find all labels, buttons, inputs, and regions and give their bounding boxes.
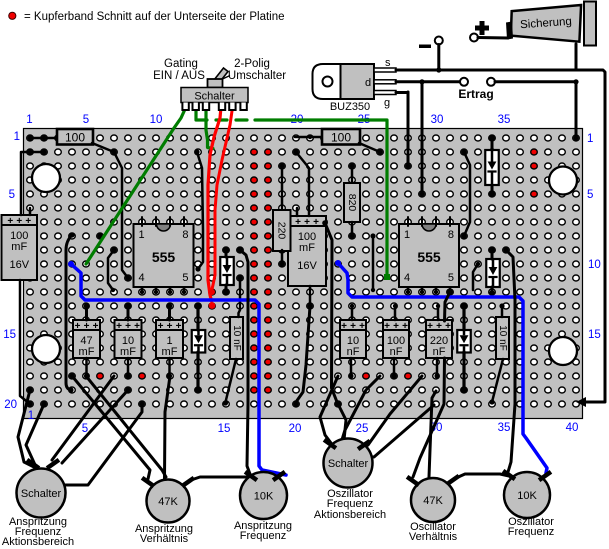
wire g-net col28 [407,92,410,166]
svg-text:16V: 16V [9,259,29,271]
capacitor C1 100mF 16V [2,215,38,280]
capacitor C10 10nF [496,317,509,359]
wire R3 bottom lead [281,250,284,264]
svg-text:16V: 16V [297,260,317,272]
svg-text:+: + [93,321,99,332]
wire blue2 to pot6 [338,263,547,473]
svg-text:100: 100 [331,131,351,145]
svg-text:nF: nF [433,346,446,358]
wire pot3 left feed [240,250,250,474]
wire s-net [396,70,605,402]
svg-text:15: 15 [588,329,601,341]
capacitor C8 220nF [426,320,452,358]
wire C2 bottom lead [309,286,312,306]
wire C9 top lead [239,278,241,317]
svg-text:40: 40 [566,422,579,434]
op-amp U1 555 timer [134,224,194,287]
potentiometer P4 Schalter [324,439,373,488]
wire Ertrag col40 [575,82,578,138]
svg-text:2-Polig: 2-Polig [234,58,270,70]
svg-text:Aktionsbereich: Aktionsbereich [2,536,74,548]
svg-text:15: 15 [218,423,231,435]
top column labels [26,114,510,126]
wire d-net to Ertrag [396,80,460,83]
wire pot1 left feed A [18,390,34,467]
switch body Schalter [181,88,248,103]
svg-text:+: + [402,321,408,332]
wire pot2 top feed B [86,376,166,477]
potentiometer P5 47K [411,478,455,522]
svg-text:10 nF: 10 nF [497,325,508,351]
svg-text:100: 100 [65,131,85,145]
svg-text:+: + [313,217,319,228]
resistor R4 820 [344,183,360,222]
mounting hole top-left [32,164,60,192]
wire C10 top lead [501,306,504,317]
wire d-net col29 [421,82,424,194]
capacitor C9 10nF [230,317,243,359]
svg-text:820: 820 [346,194,358,212]
wire pot2 left feed [72,376,150,479]
svg-text:10: 10 [150,114,163,126]
wire C7 100nF bottom lead [393,358,396,376]
resistor R3 220 [273,210,291,251]
svg-text:mF: mF [11,241,27,253]
svg-text:+: + [16,216,22,227]
wire col4 row8 to col4 row19 [66,235,72,390]
mounting hole top-right [549,167,577,195]
right row labels [587,133,601,341]
svg-text:Verhältnis: Verhältnis [409,531,458,543]
svg-text:+: + [116,321,122,332]
svg-text:+: + [7,216,13,227]
wire C5 1mF top lead [168,306,171,320]
capacitor C5 1mF [156,320,183,358]
wire col13 row2 to row10 [197,152,203,269]
svg-text:Schalter: Schalter [194,91,235,103]
wire red switch pin5 [212,111,232,289]
wire C4 10mF bottom lead [127,358,130,376]
hole grid with red cut marks [27,135,580,407]
svg-text:EIN / AUS: EIN / AUS [153,70,205,82]
svg-text:555: 555 [152,249,176,265]
capacitor C3 47mF [73,320,100,358]
svg-text:+: + [167,321,173,332]
wire pot1 left feed B [26,404,44,467]
diode D1 [192,330,206,353]
wire col32 row2 to row8 [464,152,470,236]
wire C1 bottom lead [20,280,30,404]
svg-text:5: 5 [182,272,188,284]
wire col7 row2 to col8 row11 [114,152,128,278]
svg-text:Aktionsbereich: Aktionsbereich [314,509,386,521]
svg-text:+: + [125,321,131,332]
switch pins [182,103,246,111]
wire col7 row9 to row12 [108,250,114,290]
svg-text:20: 20 [4,399,17,411]
svg-text:d: d [365,77,371,89]
battery minus terminal [419,37,443,73]
capacitor C4 10mF [115,320,142,358]
wire green switch pin2 to col26 row11 [196,107,207,120]
wire col33 row10 hook [473,264,478,290]
svg-text:+: + [384,321,390,332]
wire C1 left lead [21,152,44,215]
wire pot4 feed w4 [368,376,422,445]
svg-text:+: + [436,321,442,332]
svg-text:5: 5 [448,272,454,284]
svg-text:+: + [445,321,451,332]
wire R3 top lead [281,166,284,212]
Ertrag terminal right [487,78,495,86]
svg-text:+: + [158,321,164,332]
potentiometer P2 47K [147,480,190,523]
svg-text:1: 1 [587,133,593,145]
transistor Q1 BUZ350 body [313,64,375,99]
svg-text:Verhältnis: Verhältnis [140,533,189,545]
wire col25 row8 to row12 [372,236,375,290]
capacitor C6 10nF [340,320,366,358]
Ertrag terminal left [460,78,468,86]
svg-text:25: 25 [356,423,369,435]
wire pot1 right feed A [52,376,114,460]
potentiometer P1 Schalter [17,469,66,518]
svg-text:1: 1 [139,229,145,241]
wire Ertrag right to col40 [495,80,576,83]
svg-text:35: 35 [498,114,511,126]
svg-text:4: 4 [139,272,145,284]
svg-text:+: + [359,321,365,332]
svg-text:8: 8 [182,229,188,241]
wire R4 bottom lead [351,222,354,236]
svg-text:+: + [75,321,81,332]
U2 pin stubs [407,217,409,226]
svg-text:Frequenz: Frequenz [508,526,554,538]
switch lever [212,68,230,86]
wire C6 10nF bottom lead [350,358,353,376]
perfboard [24,129,583,419]
svg-text:g: g [384,97,390,109]
wire C7 100nF top lead [394,306,397,320]
svg-text:+: + [427,321,433,332]
svg-text:+: + [134,321,140,332]
potentiometer P6 10K [504,472,550,518]
wire C1 right lead [29,208,32,215]
svg-text:nF: nF [390,346,403,358]
wire pot5 top feed [429,391,436,477]
svg-text:5: 5 [9,189,15,201]
wire C3 47mF bottom lead [85,358,88,376]
arrow into col40 row20 [576,397,586,407]
wire green switch pin1 to col5 row10 [86,107,186,264]
potentiometer P3 10K [240,472,287,519]
wire resistor R2 right lead [359,143,380,152]
svg-text:5: 5 [587,189,593,201]
svg-text:20: 20 [289,423,302,435]
svg-text:+: + [84,321,90,332]
wire pot2 to pot3 [191,477,249,480]
svg-text:1: 1 [14,131,20,143]
svg-text:+: + [350,321,356,332]
wire pot4 feed w3 [341,376,380,443]
wire C4 10mF top lead [127,306,130,320]
svg-text:Umschalter: Umschalter [228,70,286,82]
diode D2 [220,257,234,285]
wire pot1 wiper [41,404,142,485]
fuse Sicherung [506,2,596,46]
wire pot4 wiper [347,405,434,457]
bottom column labels [28,410,579,435]
wire C8 220nF top lead [437,306,440,320]
svg-text:+: + [341,321,347,332]
wire C9 bottom lead [226,359,237,402]
battery plus terminal [470,21,508,42]
wire pot5 to pot6 [456,474,509,478]
svg-text:Schalter: Schalter [21,488,62,500]
diode D3 [486,259,500,287]
resistor R1 100 [57,129,93,145]
wire C8 220nF bottom lead [436,358,439,376]
svg-text:s: s [385,57,391,69]
op-amp U2 555 timer [399,224,459,287]
switch pedestal [208,79,223,88]
diode D4 [485,150,499,185]
svg-text:8: 8 [448,229,454,241]
wire C5 1mF bottom lead [168,358,171,376]
U1 pin stubs [141,217,143,226]
wire red switch pin4 [208,107,221,301]
wire R4 top lead [351,166,354,183]
wire C10 bottom lead [492,359,503,402]
wire green switch pin3 stub [206,107,213,149]
svg-text:4: 4 [404,272,410,284]
svg-text:mF: mF [299,242,315,254]
wire C2 right lead [296,152,309,216]
svg-text:15: 15 [3,329,16,341]
Q1 pins [374,68,396,95]
wire pot2 top feed [165,376,171,479]
wire fuse to s-net [575,44,578,70]
left row labels [3,131,20,411]
svg-text:220: 220 [276,222,288,240]
legend cut-mark dot [9,12,16,19]
wire pot5 left feed [445,292,451,321]
capacitor C2 100mF 16V [288,216,326,286]
wire C2 left lead [296,208,299,216]
svg-text:10K: 10K [517,490,537,502]
wire resistor R2 left lead [295,136,323,139]
svg-text:Schalter: Schalter [328,458,369,470]
svg-text:+: + [304,217,310,228]
svg-text:Frequenz: Frequenz [240,530,286,542]
svg-text:BUZ350: BUZ350 [330,101,370,113]
svg-text:+: + [25,216,31,227]
wire C6 10nF top lead [351,306,354,320]
svg-text:mF: mF [162,346,178,358]
svg-text:Ertrag: Ertrag [458,87,493,101]
svg-text:1: 1 [26,114,32,126]
mounting hole bottom-right [549,337,577,365]
mounting hole bottom-left [32,335,60,363]
junction dot col6 row8 [97,233,102,238]
svg-text:= Kupferband Schnitt auf der U: = Kupferband Schnitt auf der Unterseite … [24,11,285,23]
wire pot6 left feed [506,250,515,472]
svg-text:+: + [393,321,399,332]
svg-text:47K: 47K [158,496,178,508]
svg-text:Gating: Gating [164,58,198,70]
svg-text:555: 555 [417,249,441,265]
wire C3 47mF top lead [85,306,88,320]
wire pot4 feed wA [320,376,338,443]
wire pot1 right feed B [62,390,128,463]
diode D5 [457,330,471,353]
svg-text:mF: mF [79,346,95,358]
svg-text:5: 5 [83,114,89,126]
wire g-net horizontal [396,91,408,94]
wire C2-net to col20 row20 [296,306,310,402]
capacitor C7 100nF [383,320,409,358]
svg-text:+: + [176,321,182,332]
svg-text:10K: 10K [254,491,274,503]
svg-text:nF: nF [347,346,360,358]
svg-text:1: 1 [28,410,34,422]
svg-text:1: 1 [404,229,410,241]
wire resistor R1 left lead [30,137,58,140]
wire pot4 feed w2 [325,223,346,440]
svg-text:47K: 47K [423,495,443,507]
svg-text:mF: mF [120,346,136,358]
resistor R2 100 [322,129,360,145]
svg-text:+: + [295,217,301,228]
svg-text:10 nF: 10 nF [231,325,242,351]
svg-text:10: 10 [588,259,601,271]
wire resistor R1 right lead [92,143,114,152]
svg-text:30: 30 [431,114,444,126]
wire blue1 to pot3 [71,264,286,475]
svg-text:35: 35 [498,422,511,434]
